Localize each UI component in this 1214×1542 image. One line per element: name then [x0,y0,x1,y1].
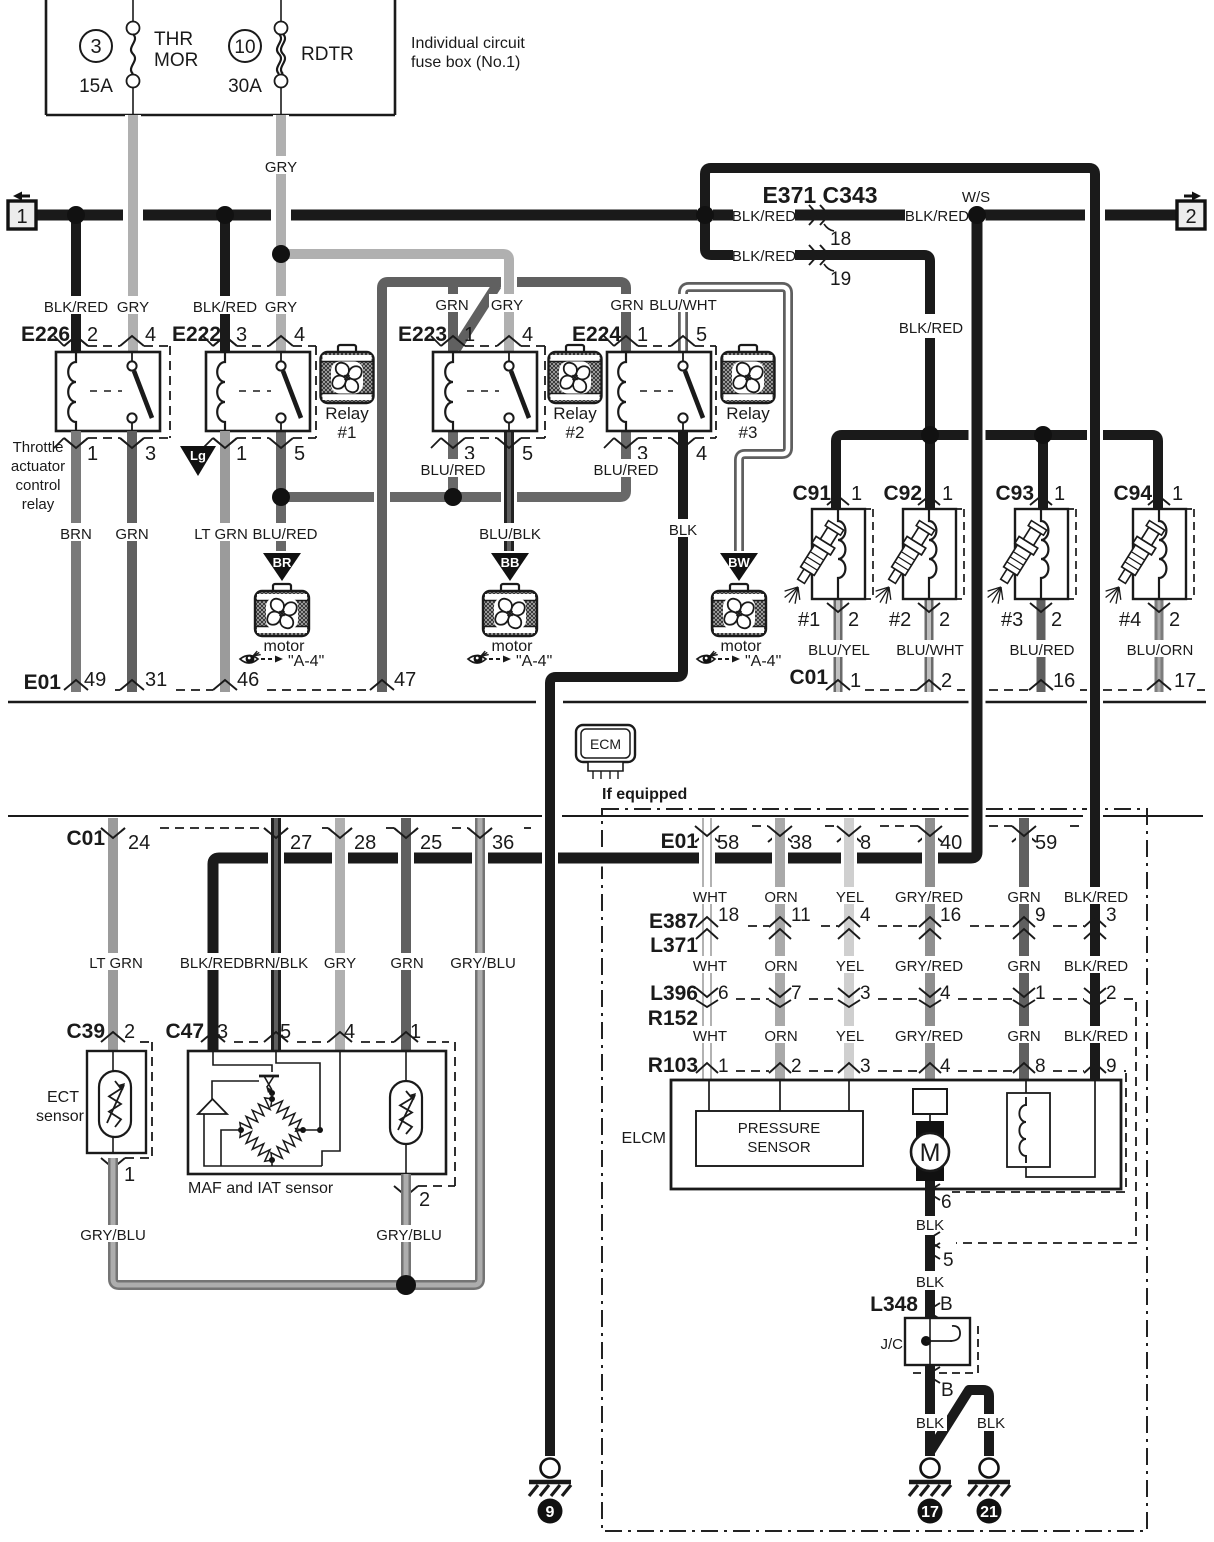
svg-text:ORN: ORN [764,889,797,906]
svg-text:GRN: GRN [1007,958,1040,975]
svg-text:#3: #3 [739,423,758,442]
svg-text:J/C: J/C [881,1336,904,1353]
svg-text:4: 4 [294,324,305,346]
svg-text:27: 27 [290,832,312,854]
svg-text:Lg: Lg [190,448,206,463]
svg-text:ORN: ORN [764,958,797,975]
injector connector C93 box [1015,509,1068,599]
svg-text:40: 40 [940,832,962,854]
ELCM motor M [916,1121,944,1181]
MAF internals [213,1051,272,1072]
top loop wire BLK/RED to E387 connector [705,168,1095,1080]
wire WHT ECM run [699,818,715,1080]
svg-text:1: 1 [942,483,953,505]
wire BLU/RED C93-2 to C01-16 [1037,599,1046,692]
svg-text:BLU/BLK: BLU/BLK [479,526,541,543]
connector C92 dashes [956,509,964,599]
svg-text:C01: C01 [789,666,828,689]
svg-text:BLU/RED: BLU/RED [593,462,658,479]
svg-text:If equipped: If equipped [602,786,687,803]
svg-text:1: 1 [16,206,27,228]
wire W/S vertical and ECM ground bus to C47 [213,215,977,1051]
wire BLK ELCM motor to J/C L348 [925,1181,935,1216]
ELCM solenoid coil box [1007,1093,1050,1167]
wire GRN C01-25 to C47-1 [398,818,414,1051]
injector C93 coil [1041,509,1048,599]
relay E222 box [206,352,310,431]
relay E223 switch [508,352,510,362]
svg-text:2: 2 [87,324,98,346]
svg-text:5: 5 [294,443,305,465]
svg-text:30A: 30A [228,76,262,97]
ground 21 [980,1459,999,1478]
svg-text:WHT: WHT [693,958,727,975]
marker BB triangle and motor [491,553,529,581]
svg-text:1: 1 [1054,483,1065,505]
svg-text:8: 8 [1035,1056,1046,1077]
svg-text:C01: C01 [66,827,105,850]
injector connector C92 box [903,509,956,599]
svg-text:#2: #2 [889,609,911,631]
svg-text:GRY: GRY [324,955,356,972]
svg-text:E223: E223 [398,323,447,346]
svg-text:E222: E222 [172,323,221,346]
svg-text:BRN/BLK: BRN/BLK [244,955,308,972]
svg-text:59: 59 [1035,832,1057,854]
svg-text:E01: E01 [24,671,62,694]
svg-text:fuse box (No.1): fuse box (No.1) [411,54,520,71]
svg-text:GRN: GRN [1007,889,1040,906]
relay E223 box [433,352,537,431]
wire BLU/WHT C92-2 to C01-2 [925,599,934,692]
separator line between section 1 and section 2 [8,701,1206,704]
svg-text:2: 2 [419,1189,430,1211]
svg-text:WHT: WHT [693,1028,727,1045]
svg-text:7: 7 [791,983,802,1004]
svg-text:46: 46 [237,669,259,691]
inner dashed box around ELCM and R103 [956,1002,1136,1243]
wire GRY/BLU C39-1 to rail [113,1158,480,1285]
svg-text:GRY: GRY [491,297,523,314]
svg-text:4: 4 [145,324,156,346]
relay E224 box [607,352,711,431]
svg-text:YEL: YEL [836,889,864,906]
svg-text:L348: L348 [870,1293,918,1316]
injector feed rail BLK/RED [836,435,1158,509]
wire color labels row 1 [691,887,729,904]
svg-text:6: 6 [718,983,729,1004]
PRESSURE SENSOR box [709,1080,849,1111]
svg-text:25: 25 [420,832,442,854]
svg-text:4: 4 [696,443,707,465]
svg-text:PRESSURE: PRESSURE [738,1120,821,1137]
junction node W/S [968,206,986,224]
svg-text:47: 47 [394,669,416,691]
svg-text:2: 2 [1051,609,1062,631]
inner dashed box around ELCM [952,1073,1126,1192]
wire BLK drop to C93 [1038,435,1048,509]
svg-text:R103: R103 [648,1054,698,1077]
svg-text:1: 1 [236,443,247,465]
svg-text:5: 5 [522,443,533,465]
svg-text:BLK/RED: BLK/RED [44,299,108,316]
svg-text:WHT: WHT [693,889,727,906]
If equipped dashed-dotted box [602,809,1147,1531]
svg-text:17: 17 [1174,670,1196,692]
svg-text:9: 9 [1035,905,1046,926]
svg-text:GRN: GRN [115,526,148,543]
svg-text:BLU/RED: BLU/RED [252,526,317,543]
wire BLK/RED bus to E226 pin 2 [71,215,81,353]
svg-text:BLK/RED: BLK/RED [1064,1028,1128,1045]
svg-text:2: 2 [1106,983,1117,1004]
svg-text:C91: C91 [792,482,831,505]
IAT thermistor [405,1051,407,1081]
svg-text:E01: E01 [661,830,699,853]
injector C94 coil [1159,509,1166,599]
relay E224 switch [682,352,684,362]
wire BRN/BLK C01-27 to C47-5 [268,818,284,1051]
wire GRY/RED ECM run [922,818,938,1080]
svg-text:B: B [940,1294,953,1315]
main bus wire BLK/RED from connector 1 [36,210,123,221]
svg-text:58: 58 [717,832,739,854]
relay E226 switch [131,352,133,362]
svg-text:L396: L396 [650,982,698,1005]
svg-text:LT GRN: LT GRN [194,526,248,543]
svg-text:"A-4": "A-4" [288,653,324,670]
svg-text:#2: #2 [566,423,585,442]
svg-text:GRY/BLU: GRY/BLU [80,1227,146,1244]
wire BLU/RED rail under relays [281,431,626,497]
connector C91 dashes [865,509,873,599]
svg-text:3: 3 [145,443,156,465]
svg-text:Relay: Relay [553,404,597,423]
svg-text:1: 1 [464,324,475,346]
connector 1 box [13,192,30,201]
svg-text:Individual circuit: Individual circuit [411,35,525,52]
svg-text:2: 2 [848,609,859,631]
svg-text:1: 1 [637,324,648,346]
svg-text:Throttle: Throttle [13,439,64,456]
wire BLU/BLK E223 pin 5 to motor [501,431,517,551]
wire BLK E224 pin 4 to ground 9 [550,431,683,1456]
svg-text:BLK: BLK [916,1274,944,1291]
svg-text:2: 2 [1185,206,1196,228]
svg-text:BLK/RED: BLK/RED [732,208,796,225]
svg-text:GRN: GRN [610,297,643,314]
radiator icon Relay #3 [739,345,757,353]
relay E222 switch [280,352,282,362]
svg-text:5: 5 [943,1250,954,1271]
label GRY top [263,156,299,174]
injector C92 coil [929,509,936,599]
radiator icon Relay #2 [566,345,584,353]
svg-text:2: 2 [1169,609,1180,631]
svg-text:GRY: GRY [265,299,297,316]
C01 left row chevrons [101,828,125,838]
svg-text:GRY: GRY [117,299,149,316]
svg-text:BLK/RED: BLK/RED [905,208,969,225]
svg-text:24: 24 [128,832,150,854]
svg-text:E224: E224 [572,323,621,346]
wire BLK/RED bus to E222 pin 3 [220,215,230,353]
svg-text:21: 21 [980,1504,998,1521]
svg-text:11: 11 [791,905,811,926]
svg-text:B: B [941,1380,954,1401]
left wire color labels [89,953,143,970]
svg-text:16: 16 [1053,670,1075,692]
wire GRN E226 pin 3 to E01-31 [127,431,137,692]
svg-text:#1: #1 [798,609,820,631]
svg-text:BLK/RED: BLK/RED [732,248,796,265]
wire GRN ECM run [1016,818,1032,1080]
svg-text:BLU/RED: BLU/RED [420,462,485,479]
top wire labels row [45,296,107,314]
wire color labels row 2 [691,956,729,973]
svg-text:10: 10 [234,37,255,58]
E01 ECM row chevrons [695,826,719,836]
svg-text:MOR: MOR [154,50,198,71]
wire GRY/BLU C47-2 to rail [401,1174,411,1285]
svg-text:15A: 15A [79,76,113,97]
svg-text:ELCM: ELCM [622,1130,666,1147]
relay E222 connector dashes [237,345,269,347]
svg-text:relay: relay [22,496,55,513]
svg-text:BLK/RED: BLK/RED [1064,958,1128,975]
svg-text:C47: C47 [165,1020,204,1043]
svg-text:3: 3 [1106,905,1117,926]
svg-text:C94: C94 [1113,482,1152,505]
svg-text:BR: BR [273,555,292,570]
junction node BLU/RED at E222-5 [272,488,290,506]
svg-text:BLK/RED: BLK/RED [1064,889,1128,906]
wire GRY/BLU C01-36 down [472,818,488,1279]
svg-text:BLU/RED: BLU/RED [1009,642,1074,659]
svg-text:ECT: ECT [47,1089,79,1106]
svg-text:2: 2 [124,1021,135,1043]
svg-text:GRY/BLU: GRY/BLU [450,955,516,972]
svg-text:GRY/RED: GRY/RED [895,1028,963,1045]
wire BRN E226 pin 1 to E01-49 [71,431,81,692]
svg-text:actuator: actuator [11,458,65,475]
svg-text:C93: C93 [995,482,1034,505]
ECM icon [576,725,635,762]
wire BLK J/C to ground 17 [925,1365,935,1456]
junction connector J/C box [913,1326,978,1373]
junction node bus/loop [696,206,714,224]
marker BW triangle and motor [720,553,758,581]
injector connector C94 box [1133,509,1186,599]
svg-text:16: 16 [940,905,961,926]
relay E224 coil [618,352,626,431]
svg-text:1: 1 [851,483,862,505]
marker BR triangle and motor [263,553,301,581]
relay E226 connector dashes [88,345,120,347]
svg-text:49: 49 [84,669,106,691]
wire GRY branch to E223 pin 4 [281,254,509,353]
wire YEL ECM run [841,818,857,1080]
svg-text:4: 4 [860,905,871,926]
fuse 10 RDTR 30A [280,0,282,22]
svg-text:3: 3 [90,36,101,58]
svg-text:#4: #4 [1119,609,1141,631]
svg-text:3: 3 [860,1056,871,1077]
svg-text:BLU/YEL: BLU/YEL [808,642,870,659]
svg-text:R152: R152 [648,1007,698,1030]
svg-text:GRY/RED: GRY/RED [895,889,963,906]
relay E226 box [56,352,160,431]
svg-text:THR: THR [154,29,193,50]
svg-text:GRY/BLU: GRY/BLU [376,1227,442,1244]
svg-text:31: 31 [145,669,167,691]
svg-text:3: 3 [860,983,871,1004]
lower relay wire labels [57,523,95,541]
injector icon C92 [883,520,937,588]
junction node injector rail 1 [921,426,939,444]
svg-text:Relay: Relay [726,404,770,423]
svg-text:2: 2 [939,609,950,631]
wire BLU/RED E223 pin 3 stub [448,431,458,497]
wire GRY from fuse 10 to E222 pin 4 [273,115,289,353]
wire BLU/RED E222 pin 5 down [276,431,286,551]
svg-text:8: 8 [860,832,871,854]
svg-text:C39: C39 [66,1020,105,1043]
svg-text:RDTR: RDTR [301,44,354,65]
label BLK/RED of injector feed [901,317,962,336]
ground 17 [921,1459,940,1478]
svg-text:"A-4": "A-4" [516,653,552,670]
wire GRY from fuse 3 to E226 pin 4 [125,115,141,353]
svg-text:18: 18 [830,229,851,250]
svg-text:GRN: GRN [435,297,468,314]
radiator icon Relay #1 [338,345,356,353]
svg-text:#1: #1 [338,423,357,442]
relay E223 coil [445,352,453,431]
ground 9 [541,1459,560,1478]
svg-text:C92: C92 [883,482,922,505]
svg-text:BRN: BRN [60,526,92,543]
svg-text:6: 6 [941,1192,952,1213]
svg-text:2: 2 [941,670,952,692]
svg-text:L371: L371 [650,934,698,957]
wire LT GRN C01-24 to C39 [105,818,121,1051]
relay E224 connector dashes [638,345,671,347]
section 2 harness line [8,815,1203,817]
wire BLK/RED branch 19 to injector rail [705,210,733,255]
svg-text:control: control [15,477,60,494]
svg-text:SENSOR: SENSOR [747,1139,811,1156]
svg-text:GRN: GRN [1007,1028,1040,1045]
svg-text:3: 3 [236,324,247,346]
svg-text:"A-4": "A-4" [745,653,781,670]
wire LT GRN E222 pin 1 to E01-46 [220,431,230,692]
svg-text:BLK/RED: BLK/RED [899,320,963,337]
svg-text:BB: BB [501,555,520,570]
svg-text:BW: BW [728,555,750,570]
inline connector 18 on bus [733,205,795,223]
fuse 3 THR MOR 15A [132,0,134,22]
relay E223 connector dashes [465,345,497,347]
svg-text:BLU/WHT: BLU/WHT [896,642,964,659]
svg-text:1: 1 [1035,983,1046,1004]
svg-text:4: 4 [940,1056,951,1077]
svg-text:BLK/RED: BLK/RED [193,299,257,316]
junction node GRY branch [272,245,290,263]
junction node BLU/RED at E223-3 [444,488,462,506]
svg-text:36: 36 [492,832,514,854]
svg-text:BLK/RED: BLK/RED [180,955,244,972]
svg-text:28: 28 [354,832,376,854]
relay E226 coil [68,352,76,431]
fuse box: Individual circuit fuse box No.1 [46,0,395,115]
svg-text:#3: #3 [1001,609,1023,631]
svg-text:9: 9 [546,1504,555,1521]
injector connector C91 box [812,509,865,599]
svg-text:ORN: ORN [764,1028,797,1045]
svg-text:18: 18 [718,905,739,926]
svg-text:E387: E387 [649,910,698,933]
svg-text:BLK: BLK [916,1415,944,1432]
svg-text:38: 38 [790,832,812,854]
svg-text:LT GRN: LT GRN [89,955,143,972]
svg-text:1: 1 [850,670,861,692]
MAF bridge [240,1098,272,1130]
svg-text:YEL: YEL [836,958,864,975]
svg-text:BLU/ORN: BLU/ORN [1127,642,1194,659]
svg-text:17: 17 [921,1504,939,1521]
wire ORN ECM run [772,818,788,1080]
connector C93 dashes [1068,509,1076,599]
svg-text:E371 C343: E371 C343 [762,182,877,208]
svg-text:GRN: GRN [390,955,423,972]
svg-text:4: 4 [940,983,951,1004]
wire BLU/ORN C94-2 to C01-17 [1155,599,1164,692]
svg-text:ECM: ECM [590,736,621,752]
wire BLK branch to ground 21 [930,1390,989,1456]
svg-text:5: 5 [696,324,707,346]
svg-text:19: 19 [830,269,851,290]
wire BLU/WHT E224 pin 5 loop to motor [683,287,788,551]
marker Lg triangle [180,446,216,476]
wire GRN E01-47 to E223/E224 coils [382,282,626,692]
svg-text:BLK: BLK [669,522,697,539]
wire BLU/YEL C91-2 to C01-1 [834,599,843,692]
svg-text:1: 1 [87,443,98,465]
svg-text:1: 1 [1172,483,1183,505]
svg-text:sensor: sensor [36,1108,85,1125]
svg-text:Relay: Relay [325,404,369,423]
inline connector 19 [733,245,795,263]
connector 2 box [1184,192,1201,201]
svg-text:BLK: BLK [916,1217,944,1234]
svg-text:BLK: BLK [977,1415,1005,1432]
wire GRN diagonal into E223 pin 1 [456,285,497,349]
junction node GRY/BLU [396,1275,416,1295]
connector C94 dashes [1186,509,1194,599]
svg-text:1: 1 [124,1164,135,1186]
svg-text:W/S: W/S [962,189,990,206]
svg-text:1: 1 [718,1056,729,1077]
ELCM unit box [671,1080,1121,1189]
injector icon C91 [792,520,846,588]
wire GRY C01-28 to C47-4 [332,818,348,1051]
svg-text:9: 9 [1106,1056,1117,1077]
injector C91 coil [838,509,845,599]
relay E222 coil [217,352,225,431]
svg-text:MAF and IAT sensor: MAF and IAT sensor [188,1180,334,1197]
wire color labels row 3 [691,1026,729,1043]
